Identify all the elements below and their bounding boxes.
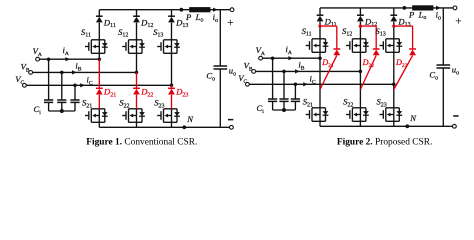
svg-text:io: io (213, 12, 218, 24)
svg-text:VB: VB (21, 62, 30, 74)
svg-text:VA: VA (33, 46, 42, 58)
svg-text:S13: S13 (375, 26, 385, 38)
svg-text:io: io (436, 10, 441, 22)
svg-text:Ci: Ci (34, 104, 42, 116)
svg-text:Lo: Lo (418, 9, 427, 21)
svg-text:S13: S13 (153, 27, 163, 39)
svg-text:VC: VC (15, 74, 24, 86)
svg-text:D21: D21 (321, 58, 334, 69)
svg-text:S12: S12 (118, 27, 128, 39)
svg-text:S12: S12 (342, 26, 352, 38)
svg-text:iA: iA (63, 45, 69, 57)
svg-text:iB: iB (298, 59, 304, 71)
svg-text:S11: S11 (302, 26, 312, 38)
svg-text:uo: uo (229, 66, 236, 78)
svg-text:iB: iB (75, 60, 81, 72)
svg-text:P: P (408, 9, 415, 19)
svg-text:D23: D23 (395, 58, 408, 69)
svg-text:D22: D22 (140, 87, 153, 99)
svg-text:D23: D23 (175, 87, 188, 99)
svg-text:S22: S22 (119, 97, 129, 109)
svg-text:S23: S23 (154, 97, 164, 109)
svg-text:D12: D12 (140, 17, 153, 29)
svg-text:Co: Co (429, 69, 438, 81)
svg-text:VB: VB (244, 61, 253, 73)
svg-text:Figure 1. Conventional CSR.: Figure 1. Conventional CSR. (86, 137, 197, 147)
svg-text:uo: uo (452, 65, 459, 77)
svg-text:iA: iA (286, 44, 292, 56)
svg-text:S21: S21 (303, 96, 313, 108)
svg-text:S22: S22 (343, 96, 353, 108)
svg-text:P: P (185, 12, 192, 22)
svg-text:S23: S23 (377, 96, 387, 108)
svg-text:D21: D21 (103, 87, 116, 99)
svg-text:+: + (455, 16, 461, 28)
svg-text:Co: Co (206, 70, 215, 82)
svg-text:+: + (227, 17, 233, 29)
svg-text:D11: D11 (103, 17, 116, 29)
svg-text:VA: VA (256, 45, 265, 57)
svg-text:Ci: Ci (257, 103, 265, 115)
svg-text:D22: D22 (362, 58, 375, 69)
svg-text:Figure 2. Proposed CSR.: Figure 2. Proposed CSR. (337, 137, 432, 147)
svg-text:VC: VC (238, 73, 247, 85)
svg-text:S11: S11 (81, 27, 91, 39)
svg-text:S21: S21 (82, 97, 92, 109)
svg-text:N: N (186, 114, 194, 124)
svg-text:Lo: Lo (195, 12, 204, 24)
svg-text:N: N (409, 113, 417, 123)
